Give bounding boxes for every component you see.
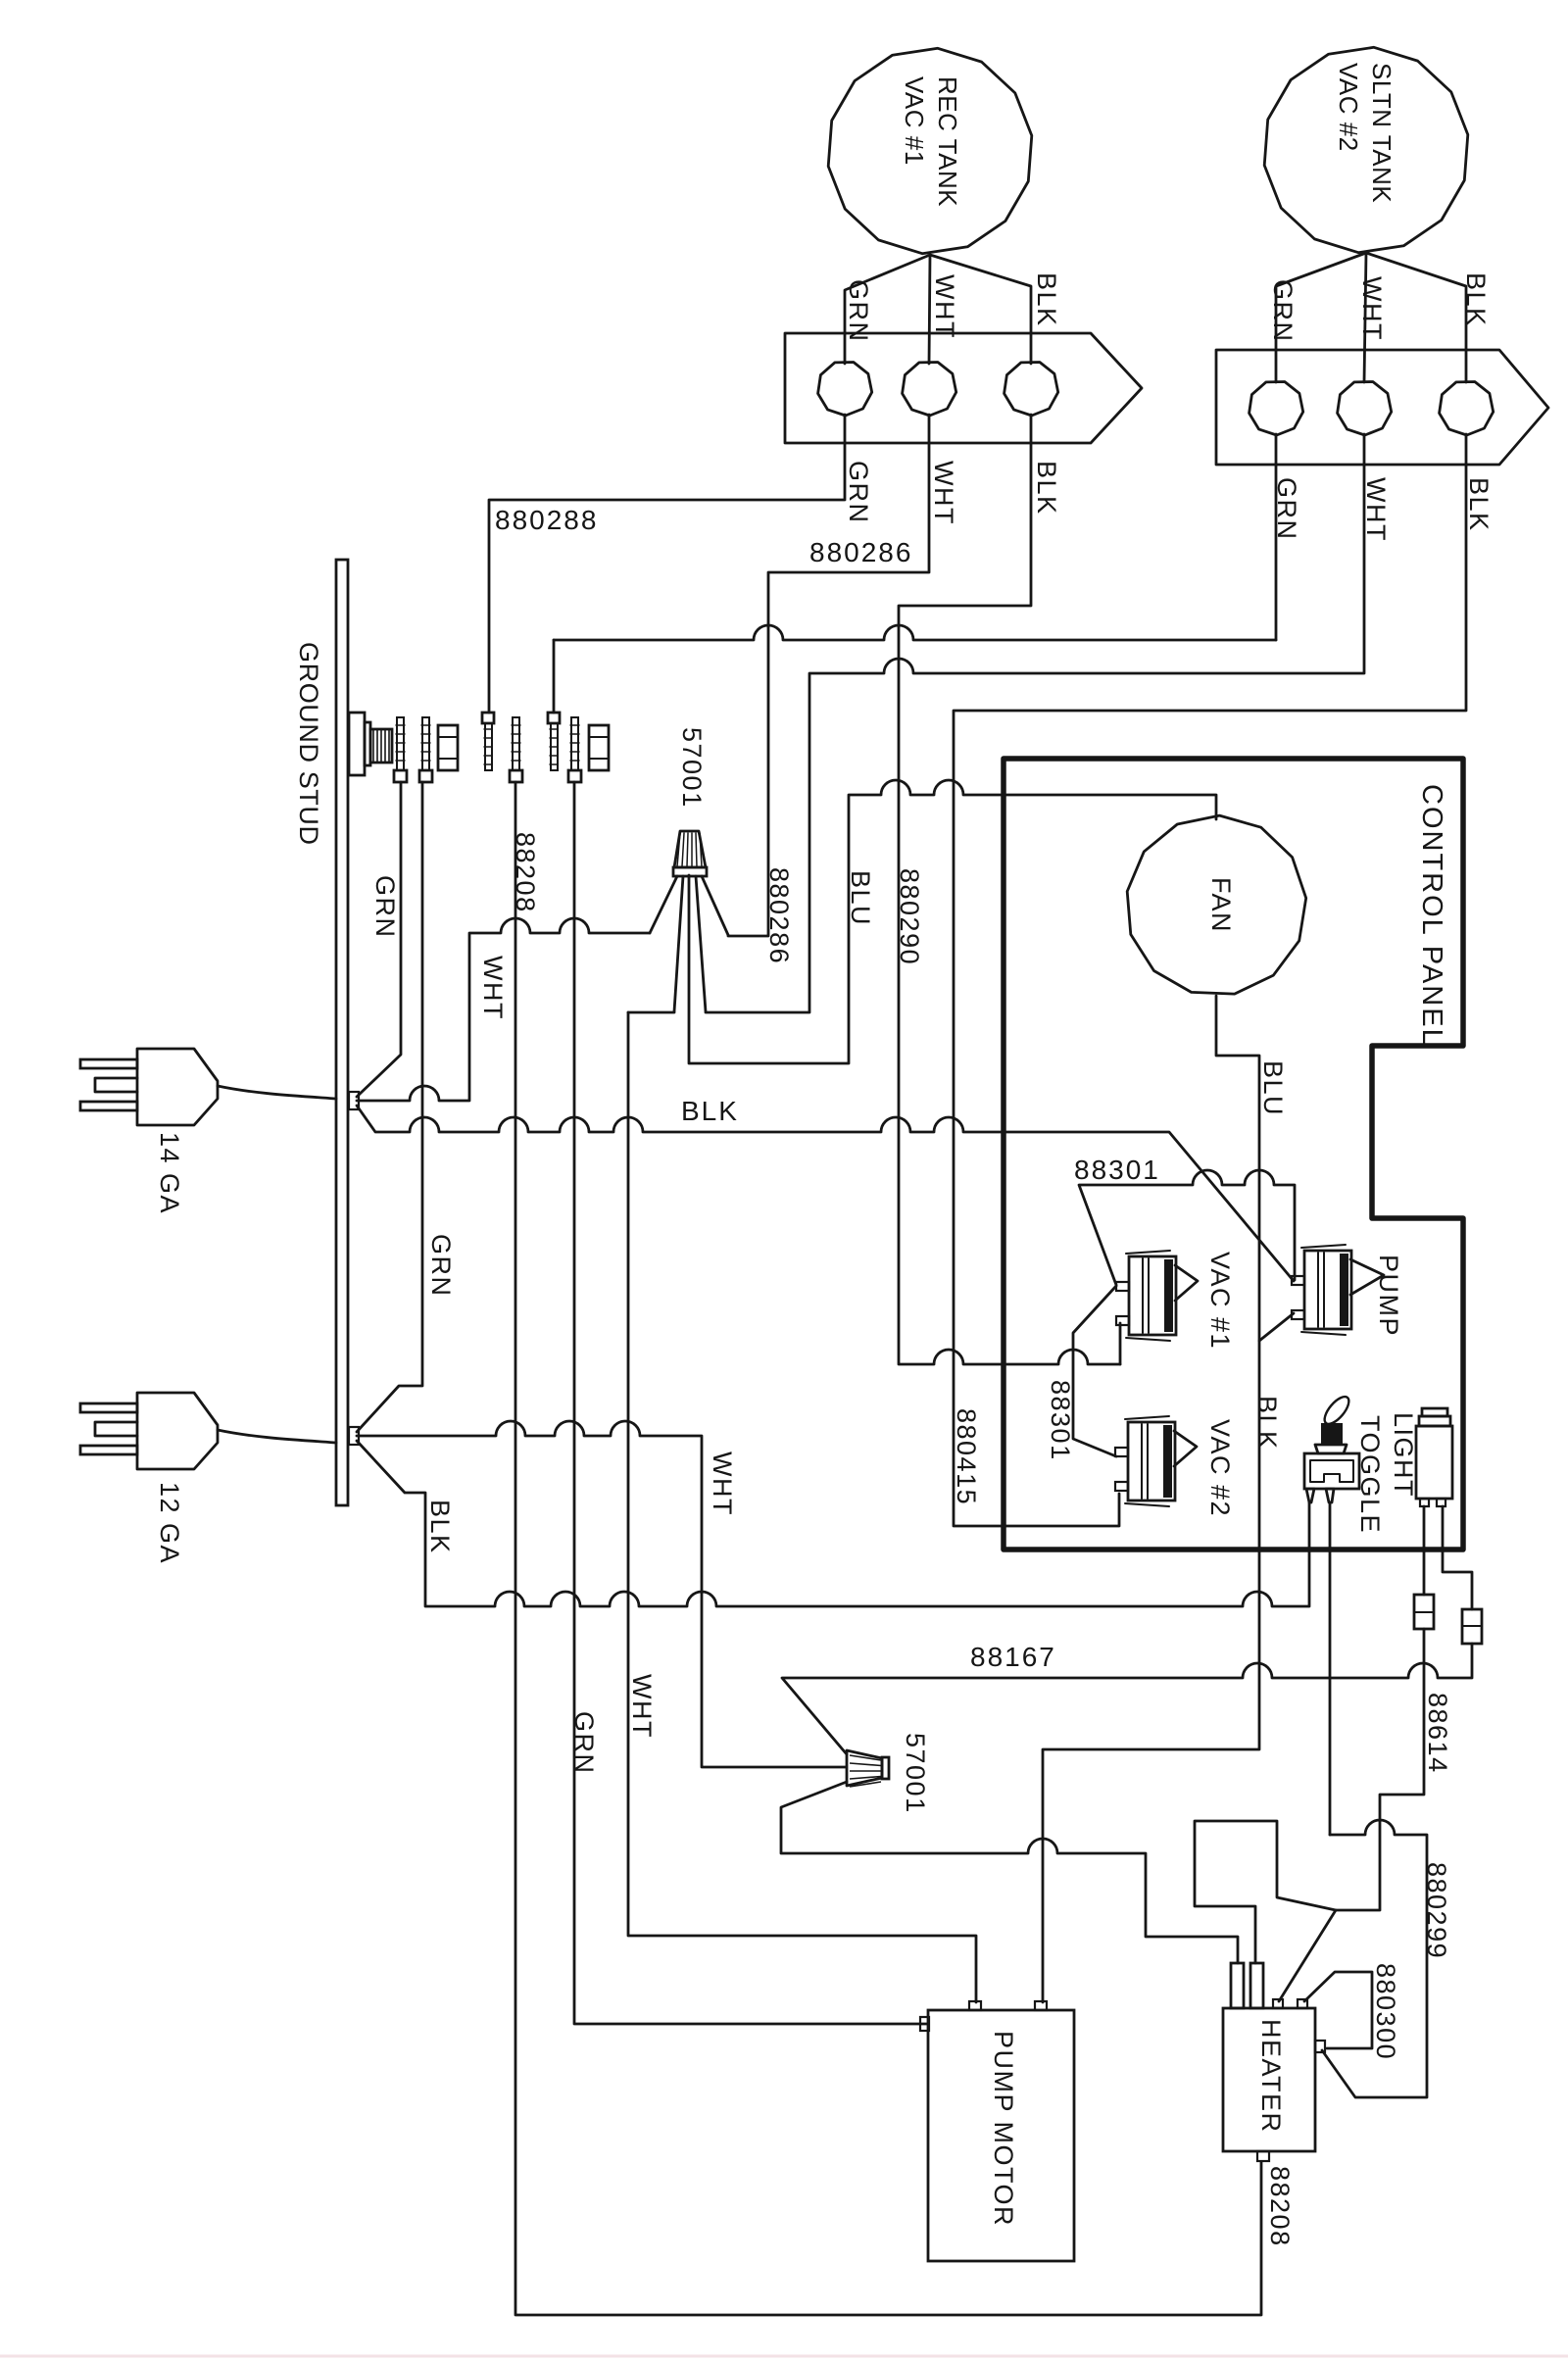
svg-text:WHT: WHT: [1357, 276, 1387, 341]
control panel outline: [1004, 759, 1463, 1550]
wire tank1 GRN lead: [845, 255, 930, 364]
connector J1 pin GRN: [818, 363, 872, 417]
svg-text:12 GA: 12 GA: [155, 1482, 184, 1564]
svg-text:88614: 88614: [1423, 1693, 1452, 1774]
svg-text:57001: 57001: [677, 727, 707, 809]
svg-text:88301: 88301: [1046, 1380, 1075, 1461]
svg-text:BLK: BLK: [425, 1500, 455, 1554]
rocker switch VAC #2: [1128, 1422, 1175, 1501]
wire tank1 WHT lead: [929, 255, 930, 364]
wire nut 57001 bottom: [847, 1750, 882, 1786]
wire 88208 ground stud to heater bottom: [515, 782, 1261, 2315]
svg-text:880288: 880288: [495, 505, 598, 535]
svg-text:880286: 880286: [764, 867, 794, 964]
svg-text:WHT: WHT: [627, 1674, 657, 1739]
heater box: [1223, 2008, 1315, 2151]
wire 88167 wire-nut2 to light: [782, 1644, 1472, 1754]
wire 88301 VAC1-top to PUMP-top: [1079, 1170, 1295, 1285]
wire BLU fan bottom: [1216, 996, 1259, 1341]
terminal lug T1 (plug1 GRN): [394, 770, 407, 782]
wire nut1 leg to 880286: [702, 876, 728, 935]
terminal pin T3 (880288): [482, 713, 494, 723]
svg-text:GROUND STUD: GROUND STUD: [294, 642, 323, 846]
terminal sleeve S1: [438, 725, 458, 770]
tank circle SLTN TANK VAC #2: [1264, 47, 1468, 252]
svg-text:HEATER: HEATER: [1256, 2019, 1286, 2134]
svg-text:CONTROL PANEL: CONTROL PANEL: [1416, 784, 1447, 1047]
terminal lug T6 (GRN): [568, 770, 581, 782]
wire nut 57001 top: [674, 831, 706, 867]
svg-text:88208: 88208: [511, 832, 540, 913]
wire 880286 tank1 WHT to wire nut: [728, 415, 929, 936]
plug P1 junction lug: [349, 1092, 359, 1109]
svg-text:LIGHT: LIGHT: [1389, 1412, 1418, 1498]
svg-text:TOGGLE: TOGGLE: [1355, 1415, 1385, 1534]
toggle switch: [1320, 1393, 1352, 1428]
terminal lug T4 (88208): [510, 770, 522, 782]
svg-text:PUMP MOTOR: PUMP MOTOR: [989, 2031, 1018, 2227]
wire tank2 GRN to ground stud: [554, 625, 1276, 640]
svg-text:BLK: BLK: [1032, 272, 1061, 327]
svg-text:VAC #1: VAC #1: [1205, 1252, 1235, 1350]
svg-text:57001: 57001: [901, 1733, 930, 1814]
plug P2 12 GA: [80, 1403, 137, 1412]
wire tank2 BLK lead: [1366, 253, 1466, 382]
wire plug2 WHT to wire nut2: [357, 1421, 846, 1767]
svg-text:WHT: WHT: [1361, 477, 1391, 542]
wire tank2 WHT lead: [1364, 253, 1366, 382]
wire 880300 heater jumper: [1304, 1972, 1372, 2048]
wire 880290 tank1 BLK to VAC1 switch: [899, 415, 1120, 1364]
terminal lug T2 (plug2 GRN): [419, 770, 432, 782]
wire plug1 WHT to wire nut: [357, 918, 650, 1101]
svg-text:880299: 880299: [1422, 1862, 1451, 1959]
terminal pin T5 (tank2 GRN): [548, 713, 560, 723]
svg-text:GRN: GRN: [426, 1234, 456, 1298]
wire 880299 toggle-right to heater side: [1322, 1820, 1427, 2097]
wire 880288 tank1 GRN to ground stud: [489, 415, 845, 713]
svg-text:GRN: GRN: [844, 461, 873, 524]
connector J2 (tank2 plug): [1216, 350, 1548, 465]
wire tank2 GRN lead: [1276, 253, 1366, 382]
svg-text:GRN: GRN: [1268, 279, 1298, 343]
rocker switch VAC #1: [1129, 1256, 1176, 1335]
svg-text:88167: 88167: [970, 1642, 1056, 1672]
wire tank2 WHT to wire nut: [706, 434, 1364, 1012]
svg-text:VAC #2: VAC #2: [1205, 1419, 1235, 1517]
fan circle: [1127, 815, 1306, 994]
wire BLU fan top to wire nut: [689, 780, 1216, 1063]
wire nut1 leg to tank2 WHT: [696, 876, 706, 1011]
wire WHT wire-nut to pump motor: [628, 1012, 976, 2002]
svg-text:BLK: BLK: [1461, 272, 1491, 327]
svg-text:BLK: BLK: [681, 1096, 739, 1126]
wire heater top-right feed loop: [1195, 1821, 1336, 1963]
wire nut2 to heater top-left: [781, 1782, 1238, 1963]
svg-text:GRN: GRN: [370, 875, 400, 939]
wire nut1 leg to WHT drop: [674, 876, 683, 1011]
plug P2 junction lug: [349, 1427, 359, 1445]
wire GRN ground stud to pump motor: [574, 782, 928, 2024]
connector J1 (tank1 plug): [785, 333, 1142, 443]
wire toggle left pin down: [1308, 1502, 1311, 1606]
plug P1 14 GA: [80, 1059, 137, 1068]
pump motor box: [928, 2010, 1074, 2261]
svg-text:BLK: BLK: [1464, 477, 1494, 532]
wire nut1 leg to plug1 WHT: [650, 876, 677, 933]
terminal sleeve S2: [589, 725, 609, 770]
wire BLK pump-bottom to pump motor: [1043, 1313, 1294, 2002]
rocker switch PUMP: [1304, 1251, 1351, 1329]
svg-text:BLK: BLK: [1032, 461, 1061, 516]
svg-text:880290: 880290: [895, 868, 924, 965]
svg-text:880300: 880300: [1371, 1963, 1400, 2060]
svg-text:14 GA: 14 GA: [155, 1132, 184, 1214]
connector J1 pin BLK: [1004, 363, 1058, 417]
connector J1 pin WHT: [903, 363, 956, 417]
svg-text:BLU: BLU: [1258, 1060, 1288, 1116]
wire 880415 tank2 BLK to VAC2 switch: [954, 434, 1466, 1526]
wire plug1 BLK to PUMP switch: [357, 1106, 1294, 1281]
ground stud bar: [336, 560, 348, 1505]
connector J2 pin WHT: [1338, 382, 1392, 436]
wire WHT horizontal to pump-motor drop: [628, 1011, 674, 1014]
svg-text:WHT: WHT: [478, 956, 508, 1020]
wire plug1 GRN up to stud: [357, 782, 401, 1097]
wire 88301 VAC1-top to VAC2-top: [1073, 1286, 1116, 1456]
svg-text:GRN: GRN: [569, 1711, 599, 1775]
wire tank1 BLK lead: [930, 255, 1031, 364]
svg-text:88301: 88301: [1074, 1155, 1160, 1185]
svg-text:FAN: FAN: [1206, 877, 1236, 933]
svg-text:88208: 88208: [1265, 2166, 1295, 2247]
wire plug2 GRN up to stud: [357, 782, 422, 1432]
wire plug2 BLK to toggle: [357, 1441, 1308, 1606]
fuse F2: [1462, 1609, 1482, 1644]
wire toggle right pin down (880299 start): [1329, 1502, 1332, 1835]
light fixture: [1422, 1408, 1447, 1416]
svg-text:880286: 880286: [809, 537, 912, 567]
svg-text:WHT: WHT: [708, 1452, 737, 1516]
connector J2 pin GRN: [1249, 382, 1303, 436]
svg-text:BLK: BLK: [1252, 1396, 1282, 1451]
fuse F1: [1414, 1595, 1434, 1629]
svg-text:PUMP: PUMP: [1374, 1255, 1403, 1337]
ground stud bolt: [349, 713, 365, 775]
wire 88614 light-left to heater: [1279, 1629, 1424, 2001]
svg-text:WHT: WHT: [930, 274, 959, 339]
svg-text:WHT: WHT: [929, 461, 958, 525]
scan artifact line: [0, 2355, 1568, 2358]
svg-text:BLU: BLU: [846, 870, 875, 926]
svg-text:880415: 880415: [952, 1408, 981, 1505]
tank circle REC TANK VAC #1: [828, 48, 1032, 253]
connector J2 pin BLK: [1440, 382, 1494, 436]
